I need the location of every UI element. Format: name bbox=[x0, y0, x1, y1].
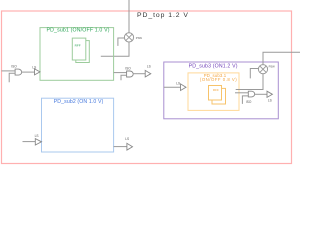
wire input to LS3 bbox=[164, 86, 181, 88]
svg-text:PD_sub3 (ON1.2 V): PD_sub3 (ON1.2 V) bbox=[189, 63, 238, 69]
wire input to ISO1 bbox=[2, 70, 16, 72]
svg-text:(ON/OFF 0.8 V): (ON/OFF 0.8 V) bbox=[200, 77, 237, 82]
svg-text:PSW: PSW bbox=[269, 65, 276, 69]
node PD_top 1.2 V label bbox=[137, 12, 189, 19]
label PD_sub3.1 bbox=[204, 73, 227, 78]
svg-text:LS: LS bbox=[268, 99, 272, 103]
svg-text:LS: LS bbox=[147, 64, 151, 68]
wire PD_sub1 output to ISO2 bbox=[114, 72, 127, 74]
level shifter LS3 bbox=[181, 84, 187, 91]
svg-text:ISO: ISO bbox=[125, 66, 131, 70]
label PD_sub3 (ON1.2 V) bbox=[189, 63, 238, 69]
svg-text:PD_top 1.2 V: PD_top 1.2 V bbox=[137, 12, 189, 19]
power domain boundary PD_top bbox=[2, 11, 292, 164]
svg-text:PD_sub2 (ON 1.0 V): PD_sub2 (ON 1.0 V) bbox=[54, 99, 104, 105]
isolation cell ISO2 bbox=[127, 71, 134, 77]
label PD_sub2 (ON 1.0 V) bbox=[54, 99, 104, 105]
svg-text:RFF: RFF bbox=[75, 43, 81, 47]
label LS (LS2) bbox=[147, 64, 151, 68]
label RFF (PD_sub3.1) bbox=[213, 88, 219, 92]
wire ISO2 output to LS2 bbox=[133, 73, 145, 75]
svg-text:ISO: ISO bbox=[11, 65, 17, 69]
power domain PD_sub2 box bbox=[42, 98, 114, 152]
label PSW (PSW3) bbox=[269, 65, 276, 69]
wire PSW1 enable stub bbox=[118, 38, 125, 46]
label RFF (PD_sub1) bbox=[75, 43, 81, 47]
retention flip-flop RFF (PD_sub3.1) front card bbox=[209, 86, 222, 101]
label ISO (ISO2) bbox=[125, 66, 131, 70]
wire ISO2 enable stub bbox=[121, 75, 127, 80]
label LS (LS1) bbox=[32, 65, 36, 69]
wire PSW3 output into PD_sub3.1 bbox=[236, 74, 263, 90]
wire input to LS4 bbox=[23, 141, 36, 143]
label (ON/OFF 0.8 V) bbox=[200, 77, 237, 82]
svg-text:LS: LS bbox=[35, 134, 39, 138]
power domain PD_sub1 box bbox=[40, 28, 114, 81]
level shifter LS6 bbox=[267, 91, 272, 97]
label PSW (PSW1) bbox=[136, 36, 143, 40]
level shifter LS2 bbox=[145, 70, 151, 77]
label LS (LS5) bbox=[125, 137, 129, 141]
svg-text:PD_sub1 (ON/OFF 1.0 V): PD_sub1 (ON/OFF 1.0 V) bbox=[47, 27, 110, 33]
svg-text:LS: LS bbox=[125, 137, 129, 141]
wire ISO1 enable stub bbox=[9, 73, 15, 82]
wire supply from right edge to PSW3 bbox=[263, 52, 300, 64]
label PD_sub1 (ON/OFF 1.0 V) bbox=[47, 27, 110, 33]
level shifter LS1 bbox=[35, 69, 41, 75]
wire ISO3 output to LS6 bbox=[255, 93, 267, 95]
wire ISO3 enable stub bbox=[242, 96, 248, 104]
power switch PSW3 bbox=[258, 65, 267, 74]
svg-text:RFF: RFF bbox=[213, 88, 219, 92]
level shifter LS4 bbox=[35, 139, 41, 145]
svg-text:LS: LS bbox=[176, 81, 180, 85]
wire PSW1 output into PD_sub1 bbox=[101, 42, 129, 56]
level shifter LS5 bbox=[127, 143, 133, 150]
power domain PD_sub3.1 box bbox=[188, 73, 239, 111]
power switch PSW1 bbox=[124, 33, 133, 42]
isolation cell ISO3 bbox=[248, 91, 254, 97]
wire supply into PSW1 from top bbox=[128, 0, 130, 33]
wire PD_sub2 output to LS5 bbox=[114, 146, 127, 148]
wire PD_sub3.1 output to ISO3 bbox=[235, 92, 248, 94]
isolation cell ISO1 bbox=[15, 69, 22, 75]
wire ISO1 output to LS1 bbox=[22, 71, 35, 73]
retention flip-flop RFF (PD_sub1) front card bbox=[72, 38, 86, 60]
label ISO (ISO1) bbox=[11, 65, 17, 69]
retention flip-flop RFF (PD_sub3.1) back card bbox=[212, 88, 226, 104]
label LS (LS6) bbox=[268, 99, 272, 103]
retention flip-flop RFF (PD_sub1) back card bbox=[76, 41, 90, 63]
power domain PD_sub3 box bbox=[164, 62, 278, 119]
svg-text:ISO: ISO bbox=[246, 100, 252, 104]
label ISO (ISO3) bbox=[246, 100, 252, 104]
svg-text:PSW: PSW bbox=[136, 36, 143, 40]
wire PSW3 enable stub bbox=[250, 69, 258, 79]
label LS (LS4) bbox=[35, 134, 39, 138]
label LS (LS3) bbox=[176, 81, 180, 85]
